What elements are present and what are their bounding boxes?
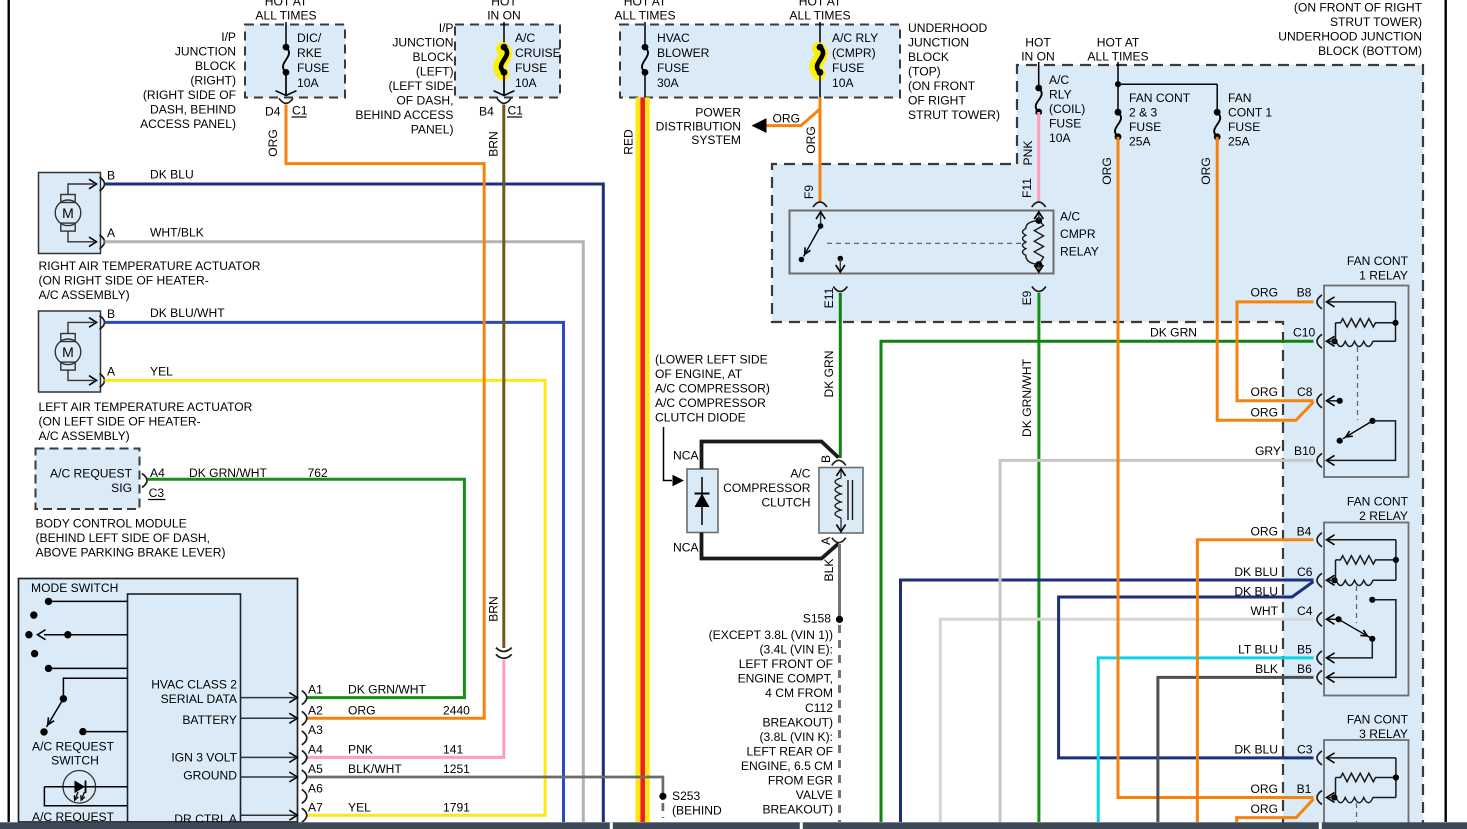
wire DK GRN/WHT from E9 down [1037, 293, 1040, 822]
svg-text:ORG: ORG [266, 129, 280, 157]
svg-text:A2: A2 [308, 704, 323, 718]
svg-text:FUSE: FUSE [1228, 120, 1260, 134]
a/c request switch output contact [79, 728, 86, 735]
svg-text:WHT/BLK: WHT/BLK [150, 226, 204, 240]
svg-text:(BEHIND LEFT SIDE OF DASH,: (BEHIND LEFT SIDE OF DASH, [36, 531, 211, 545]
svg-text:DK BLU/WHT: DK BLU/WHT [150, 306, 225, 320]
svg-text:ACCESS PANEL): ACCESS PANEL) [140, 117, 236, 131]
a/c request switch arm [47, 699, 64, 727]
svg-text:A: A [107, 226, 116, 240]
fuse block underhood junction block top [620, 25, 900, 98]
svg-text:(ON FRONT OF RIGHT: (ON FRONT OF RIGHT [1294, 1, 1423, 15]
svg-text:A7: A7 [308, 801, 323, 815]
svg-text:BLOCK: BLOCK [413, 50, 454, 64]
fuse FAN CONT 1 25A [1214, 112, 1220, 137]
underhood junction block (bottom) region fill [772, 65, 1423, 829]
svg-text:(RIGHT): (RIGHT) [190, 74, 236, 88]
svg-text:CMPR: CMPR [1060, 227, 1096, 241]
svg-text:IN ON: IN ON [1021, 50, 1055, 64]
fuse A/C RLY (COIL) 10A [1036, 88, 1042, 112]
motor M (right actuator) [61, 195, 75, 203]
fan cont 2 relay upper contact to B6 [1369, 597, 1375, 603]
svg-text:ORG: ORG [1250, 782, 1278, 796]
pointer arrow to diode [664, 427, 673, 481]
HVAC pin arrow [241, 776, 296, 778]
svg-text:JUNCTION: JUNCTION [908, 36, 969, 50]
svg-text:A5: A5 [308, 762, 323, 776]
svg-text:BRN: BRN [487, 596, 501, 622]
svg-text:C6: C6 [1297, 565, 1313, 579]
svg-text:STRUT TOWER): STRUT TOWER) [908, 108, 1000, 122]
svg-text:10A: 10A [832, 76, 854, 90]
a/c request LED loop wire [44, 787, 127, 806]
wire DK BLU link C6 to C3 [1059, 582, 1314, 758]
svg-text:1 RELAY: 1 RELAY [1359, 269, 1408, 283]
svg-text:BREAKOUT): BREAKOUT) [762, 715, 833, 729]
fuse FAN CONT 2 & 3 25A [1115, 112, 1121, 137]
HVAC pin arrow [241, 697, 296, 699]
svg-text:GROUND: GROUND [183, 769, 237, 783]
svg-text:BODY CONTROL MODULE: BODY CONTROL MODULE [36, 517, 187, 531]
fan cont 3 relay coil [1336, 798, 1396, 803]
motor M (left actuator) [61, 334, 75, 342]
svg-text:SIG: SIG [111, 481, 132, 495]
svg-text:ENGINE, 6.5 CM: ENGINE, 6.5 CM [741, 759, 833, 773]
svg-text:PNK: PNK [1021, 141, 1035, 166]
fan cont 1 relay pin C10 internal [1327, 336, 1335, 346]
connector bracket A4 [302, 750, 307, 764]
mode switch outer box [19, 579, 298, 823]
svg-text:ENGINE COMPT,: ENGINE COMPT, [738, 672, 833, 686]
svg-text:JUNCTION: JUNCTION [392, 36, 453, 50]
wire ORG loop B8 to C8 [1237, 302, 1314, 401]
connector bracket B4/C1 [497, 98, 511, 103]
svg-text:F11: F11 [1020, 178, 1034, 198]
svg-text:RKE: RKE [297, 46, 322, 60]
svg-text:IGN 3 VOLT: IGN 3 VOLT [171, 751, 237, 765]
fan cont 1 relay resistor [1336, 319, 1396, 327]
svg-text:10A: 10A [297, 76, 319, 90]
wire BLK fan cont 2 relay B6 [1158, 677, 1314, 822]
svg-text:D4: D4 [265, 105, 281, 119]
svg-text:B6: B6 [1297, 662, 1312, 676]
svg-text:FAN: FAN [1228, 91, 1252, 105]
svg-text:A/C: A/C [1060, 210, 1080, 224]
svg-text:10A: 10A [515, 76, 537, 90]
fan cont 1 relay pin B8 internal [1327, 297, 1335, 307]
svg-text:HOT AT: HOT AT [799, 0, 842, 9]
svg-text:POWER: POWER [695, 106, 741, 120]
svg-text:A/C COMPRESSOR: A/C COMPRESSOR [655, 396, 766, 410]
connector bracket B (clutch) [832, 460, 846, 465]
wire DK GRN fan cont 1 relay C10 [881, 341, 1314, 822]
svg-text:HOT AT: HOT AT [265, 0, 308, 9]
svg-text:DK BLU: DK BLU [1234, 565, 1278, 579]
svg-text:(RIGHT SIDE OF: (RIGHT SIDE OF [143, 88, 236, 102]
svg-text:VALVE: VALVE [796, 788, 833, 802]
fan cont 2 relay link dashed [1356, 586, 1358, 623]
body control module box [36, 449, 140, 510]
fan cont 2 relay resistor [1336, 556, 1396, 564]
HVAC pin arrow [241, 814, 296, 816]
svg-text:A/C COMPRESSOR): A/C COMPRESSOR) [655, 382, 770, 396]
relay box FAN CONT 2 RELAY [1324, 523, 1409, 696]
svg-text:1251: 1251 [443, 762, 470, 776]
fuse block I/P junction block left [455, 25, 560, 98]
wire stub into HVAC BLOWER fuse [644, 22, 646, 47]
arrow to power distribution system [752, 118, 767, 133]
right actuator pin wires [68, 184, 94, 195]
svg-text:DK BLU: DK BLU [1234, 743, 1278, 757]
svg-text:ORG: ORG [1250, 406, 1278, 420]
svg-text:A/C: A/C [790, 467, 810, 481]
svg-text:FAN CONT: FAN CONT [1347, 495, 1409, 509]
svg-text:ORG: ORG [1250, 802, 1278, 816]
svg-text:BLOCK (BOTTOM): BLOCK (BOTTOM) [1318, 44, 1422, 58]
svg-text:SYSTEM: SYSTEM [691, 133, 741, 147]
svg-text:ORG: ORG [804, 126, 818, 154]
svg-text:C10: C10 [1293, 326, 1315, 340]
svg-text:ORG: ORG [1199, 157, 1213, 185]
svg-text:10A: 10A [1049, 131, 1071, 145]
svg-text:OF DASH,: OF DASH, [396, 94, 453, 108]
connector bracket B (left actuator) [100, 315, 105, 329]
connector bracket A2 [302, 711, 307, 725]
svg-text:LEFT AIR TEMPERATURE ACTUATOR: LEFT AIR TEMPERATURE ACTUATOR [39, 400, 253, 414]
svg-text:I/P: I/P [439, 21, 454, 35]
fan cont 1 relay link dashed [1357, 347, 1359, 420]
svg-text:CLUTCH DIODE: CLUTCH DIODE [655, 411, 746, 425]
svg-text:JUNCTION: JUNCTION [175, 45, 236, 59]
fan cont 2 relay pin C4 internal switch [1327, 614, 1335, 624]
fan cont 2 relay pin B4 internal [1327, 535, 1335, 545]
svg-text:3 RELAY: 3 RELAY [1359, 727, 1408, 741]
bottom cropped panel band [0, 822, 1467, 829]
svg-text:(ON LEFT SIDE OF HEATER-: (ON LEFT SIDE OF HEATER- [39, 415, 201, 429]
svg-text:B: B [107, 169, 115, 183]
right air temperature actuator box [39, 173, 101, 254]
relay switch arm [804, 226, 821, 257]
svg-text:A: A [819, 536, 833, 545]
fuse HVAC BLOWER 30A [642, 47, 648, 72]
wire DK GRN E11 to compressor clutch B [839, 293, 842, 458]
fan cont 1 relay pin C8 internal [1327, 396, 1335, 406]
fan cont 1 relay switch [1369, 418, 1375, 424]
relay coil (resistor zigzag + scallops) [1034, 221, 1043, 265]
svg-text:PNK: PNK [348, 743, 373, 757]
svg-text:A/C REQUEST: A/C REQUEST [32, 810, 115, 824]
wire stub and branch to fan fuses [1117, 62, 1119, 112]
svg-text:YEL: YEL [348, 801, 371, 815]
wire BLK/WHT A5 to S253 [307, 777, 663, 796]
relay switch contact dot [799, 257, 805, 263]
svg-text:HVAC: HVAC [657, 31, 690, 45]
relay box FAN CONT 3 RELAY [1324, 740, 1409, 829]
svg-text:A/C ASSEMBLY): A/C ASSEMBLY) [39, 429, 130, 443]
connector bracket A3 [302, 731, 307, 745]
svg-text:DK GRN: DK GRN [1150, 326, 1197, 340]
fan cont 2 relay pin brackets [1317, 533, 1322, 547]
svg-text:(ON RIGHT SIDE OF HEATER-: (ON RIGHT SIDE OF HEATER- [39, 274, 209, 288]
svg-text:MODE SWITCH: MODE SWITCH [31, 581, 118, 595]
svg-text:HOT AT: HOT AT [1097, 36, 1140, 50]
connector bracket A7 [302, 808, 307, 822]
svg-text:ORG: ORG [773, 112, 801, 126]
fan cont 1 relay coil [1336, 341, 1396, 346]
svg-text:RIGHT AIR TEMPERATURE ACTUATOR: RIGHT AIR TEMPERATURE ACTUATOR [39, 259, 261, 273]
svg-text:ALL TIMES: ALL TIMES [1087, 50, 1148, 64]
svg-text:BLOWER: BLOWER [657, 46, 710, 60]
svg-text:CONT 1: CONT 1 [1228, 106, 1272, 120]
fan cont 1 relay pin brackets [1317, 295, 1322, 309]
svg-text:FAN CONT: FAN CONT [1347, 254, 1409, 268]
svg-text:B: B [107, 307, 115, 321]
svg-text:A: A [107, 365, 116, 379]
svg-text:C3: C3 [149, 486, 165, 500]
svg-text:BLK: BLK [1255, 662, 1278, 676]
page border right [1444, 0, 1446, 822]
svg-text:DK BLU: DK BLU [150, 168, 194, 182]
svg-text:4 CM FROM: 4 CM FROM [765, 686, 833, 700]
svg-text:UNDERHOOD JUNCTION: UNDERHOOD JUNCTION [1278, 30, 1422, 44]
svg-text:30A: 30A [657, 76, 679, 90]
mode switch contact row 2 [30, 611, 37, 618]
svg-text:DK GRN/WHT: DK GRN/WHT [348, 683, 427, 697]
svg-text:(LEFT): (LEFT) [416, 65, 454, 79]
svg-text:B: B [819, 455, 833, 463]
connector bracket A (right actuator) [100, 235, 105, 249]
relay mechanical link (dashed) [827, 242, 1026, 244]
svg-text:WHT: WHT [1250, 604, 1278, 618]
splice S253 [659, 793, 666, 800]
arrow below A/C CRUISE fuse [503, 72, 505, 95]
svg-text:NCA: NCA [673, 541, 699, 555]
wire ORG fan cont 1 fuse to C8 [1217, 137, 1313, 421]
mode switch contact row 5 [45, 665, 52, 672]
svg-text:2 RELAY: 2 RELAY [1359, 509, 1408, 523]
wire WHT fan cont 2 relay C4 [940, 619, 1313, 822]
svg-text:B1: B1 [1297, 782, 1312, 796]
svg-text:A6: A6 [308, 782, 323, 796]
svg-text:DIC/: DIC/ [297, 31, 322, 45]
svg-text:DK GRN: DK GRN [822, 350, 836, 397]
svg-text:DK GRN/WHT: DK GRN/WHT [1020, 358, 1034, 437]
svg-text:C4: C4 [1297, 604, 1313, 618]
svg-text:FUSE: FUSE [297, 61, 329, 75]
svg-text:M: M [62, 205, 74, 221]
svg-text:ALL TIMES: ALL TIMES [614, 8, 675, 22]
fuse block I/P junction block right [245, 25, 345, 98]
svg-text:ALL TIMES: ALL TIMES [255, 8, 316, 22]
connector bracket A1 [302, 691, 307, 705]
connector bracket E11 [833, 287, 847, 292]
wire ORG fan cont 2&3 fuse to B1 [1118, 137, 1314, 798]
wire stub into DIC/RKE fuse [285, 22, 287, 47]
svg-text:DASH, BEHIND: DASH, BEHIND [150, 103, 236, 117]
svg-text:SERIAL DATA: SERIAL DATA [161, 692, 238, 706]
connector bracket D4/C1 [279, 98, 293, 103]
fan cont 3 relay pin C3 internal [1327, 753, 1335, 763]
svg-text:FAN CONT: FAN CONT [1347, 713, 1409, 727]
svg-text:HVAC CLASS 2: HVAC CLASS 2 [151, 678, 237, 692]
relay box A/C CMPR RELAY [790, 211, 1054, 274]
wire GRY fan cont 1 relay B10 [1000, 460, 1313, 822]
junction dot fan fuse feed [1115, 81, 1121, 87]
svg-text:B5: B5 [1297, 643, 1312, 657]
wire BLK dashed continuation below S158 [838, 625, 841, 822]
wire stub into A/C RLY CMPR fuse [819, 22, 821, 47]
svg-text:F9: F9 [802, 185, 816, 199]
svg-text:A/C RLY: A/C RLY [832, 31, 878, 45]
svg-text:PANEL): PANEL) [411, 123, 454, 137]
svg-text:762: 762 [308, 466, 328, 480]
relay coil pin arrows [1038, 211, 1040, 221]
relay output contact to E11 [838, 256, 844, 262]
mode switch wiper row [25, 631, 32, 638]
wire WHT/BLK right actuator A [105, 242, 584, 822]
svg-text:CLUTCH: CLUTCH [761, 496, 810, 510]
svg-text:A/C: A/C [1049, 73, 1069, 87]
fan cont 1 relay pin B10 internal [1328, 421, 1396, 461]
svg-text:DK GRN/WHT: DK GRN/WHT [189, 466, 268, 480]
fuse A/C RLY (CMPR) 10A (highlighted) [816, 49, 822, 74]
svg-text:C8: C8 [1297, 385, 1313, 399]
svg-text:BLK: BLK [822, 559, 836, 582]
svg-text:(CMPR): (CMPR) [832, 46, 876, 60]
svg-text:COMPRESSOR: COMPRESSOR [723, 481, 811, 495]
svg-text:ORG: ORG [1250, 286, 1278, 300]
svg-text:BLK/WHT: BLK/WHT [348, 762, 402, 776]
fuse DIC/RKE 10A [283, 47, 289, 72]
svg-text:(LOWER LEFT SIDE: (LOWER LEFT SIDE [655, 353, 768, 367]
wire LT BLU fan cont 2 relay B5 [1098, 658, 1313, 822]
svg-text:(TOP): (TOP) [908, 65, 941, 79]
svg-text:ORG: ORG [348, 704, 376, 718]
svg-text:A/C REQUEST: A/C REQUEST [32, 740, 115, 754]
connector bracket A (clutch) [832, 538, 846, 543]
splice S158 [836, 616, 843, 623]
wire stub into A/C CRUISE fuse [503, 22, 505, 47]
connector bracket F9 [813, 202, 827, 207]
thick wire diode to clutch B (NCA) [702, 442, 839, 470]
fan cont 2 relay coil [1336, 580, 1396, 585]
thick wire diode to clutch A (NCA) [702, 533, 839, 559]
wire ORG D4 fuse to HVAC A2 [286, 105, 484, 719]
svg-text:ORG: ORG [1250, 525, 1278, 539]
relay box FAN CONT 1 RELAY [1324, 286, 1409, 478]
svg-text:FROM EGR: FROM EGR [768, 774, 833, 788]
connector bracket B (right actuator) [100, 177, 105, 191]
svg-text:M: M [62, 344, 74, 360]
svg-text:LEFT FRONT OF: LEFT FRONT OF [739, 657, 833, 671]
svg-text:(BEHIND: (BEHIND [672, 804, 722, 818]
svg-text:A/C ASSEMBLY): A/C ASSEMBLY) [39, 288, 130, 302]
svg-text:FUSE: FUSE [515, 61, 547, 75]
clutch box [819, 468, 863, 534]
svg-text:BATTERY: BATTERY [182, 713, 237, 727]
wire ORG from CMPR fuse to F9 [819, 97, 822, 202]
svg-text:B4: B4 [479, 105, 494, 119]
svg-text:S253: S253 [672, 789, 701, 803]
svg-text:OF RIGHT: OF RIGHT [908, 94, 966, 108]
a/c request switch pivot [60, 695, 67, 702]
svg-text:A/C REQUEST: A/C REQUEST [50, 467, 133, 481]
svg-text:25A: 25A [1228, 135, 1250, 149]
fuse A/C CRUISE 10A (highlighted) [500, 49, 506, 74]
svg-text:C112: C112 [805, 701, 833, 715]
svg-text:(COIL): (COIL) [1049, 102, 1085, 116]
wire BLK clutch A to S158 [838, 544, 841, 619]
mode switch contact row 1 [45, 598, 52, 605]
svg-text:FUSE: FUSE [1049, 117, 1081, 131]
connector bracket A5 [302, 770, 307, 784]
fan cont 3 relay link dashed [1356, 803, 1358, 822]
svg-text:YEL: YEL [150, 365, 173, 379]
fan cont 2 relay contact to B5 [1328, 639, 1372, 658]
svg-text:UNDERHOOD: UNDERHOOD [908, 21, 988, 35]
svg-text:FUSE: FUSE [832, 61, 864, 75]
svg-text:C3: C3 [1297, 743, 1313, 757]
svg-text:I/P: I/P [221, 30, 236, 44]
svg-text:A/C: A/C [515, 31, 535, 45]
svg-text:NCA: NCA [673, 449, 699, 463]
svg-text:B4: B4 [1297, 525, 1312, 539]
connector bracket F11 [1032, 202, 1046, 207]
svg-text:BRN: BRN [487, 131, 501, 157]
left actuator pin wires [68, 322, 94, 333]
connector bracket A (left actuator) [100, 373, 105, 387]
left air temperature actuator box [39, 311, 101, 392]
svg-text:LT BLU: LT BLU [1238, 643, 1278, 657]
wire dashed below S253 [662, 803, 665, 818]
svg-text:ALL TIMES: ALL TIMES [789, 8, 850, 22]
svg-text:B8: B8 [1297, 286, 1312, 300]
svg-text:C1: C1 [292, 104, 308, 118]
svg-text:SWITCH: SWITCH [51, 754, 99, 768]
svg-text:BLOCK: BLOCK [908, 50, 949, 64]
wire DK BLU fan cont 2 relay C6 [901, 580, 1314, 822]
wire ORG fan cont 2 relay B4 down [1197, 540, 1313, 822]
svg-text:RED: RED [622, 129, 636, 155]
fan cont 2 relay pin C6 internal [1327, 575, 1335, 585]
clutch diode symbol [701, 477, 703, 525]
svg-text:HOT: HOT [491, 0, 517, 9]
svg-text:(3.4L (VIN E):: (3.4L (VIN E): [760, 643, 833, 657]
svg-text:C1: C1 [508, 104, 524, 118]
diode box [687, 469, 718, 533]
page border left [7, 0, 9, 822]
connector bracket A4/C3 (BCM) [142, 474, 147, 488]
svg-text:STRUT TOWER): STRUT TOWER) [1330, 15, 1422, 29]
clutch pin arrows [840, 468, 842, 479]
HVAC control inner box [128, 594, 241, 822]
svg-text:FAN CONT: FAN CONT [1129, 91, 1191, 105]
svg-text:(EXCEPT 3.8L (VIN 1)): (EXCEPT 3.8L (VIN 1)) [709, 628, 833, 642]
wire RED (thick) [635, 97, 649, 822]
svg-text:IN ON: IN ON [487, 8, 521, 22]
svg-text:GRY: GRY [1255, 444, 1281, 458]
svg-text:141: 141 [443, 743, 463, 757]
underhood junction block (bottom) dashed border [1017, 65, 1423, 829]
a/c request switch contact [40, 728, 47, 735]
wire PNK to HVAC A4 [307, 660, 504, 757]
svg-text:A3: A3 [308, 723, 323, 737]
svg-text:BLOCK: BLOCK [195, 59, 236, 73]
clutch coil symbol [835, 478, 841, 518]
svg-text:25A: 25A [1129, 135, 1151, 149]
svg-text:2 & 3: 2 & 3 [1129, 106, 1158, 120]
svg-text:DISTRIBUTION: DISTRIBUTION [656, 119, 741, 133]
